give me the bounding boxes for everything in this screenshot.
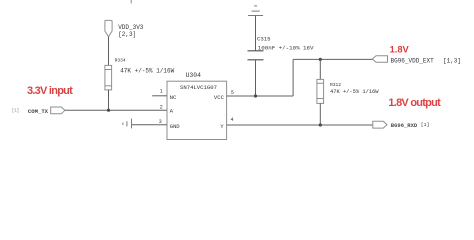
svg-text:C315: C315 [257, 35, 270, 42]
wire pin 5 VCC [227, 95, 294, 97]
wire VCC riser [292, 59, 294, 96]
svg-text:VCC: VCC [214, 94, 225, 101]
op-amp buffer U304 box [167, 81, 227, 139]
svg-text:3: 3 [159, 119, 162, 125]
wire R312 bottom lead [319, 103, 321, 125]
svg-text:COM_TX: COM_TX [28, 108, 49, 115]
wire C315 to VCC net [255, 60, 257, 96]
svg-text:GND: GND [170, 123, 181, 130]
svg-text:U304: U304 [186, 72, 202, 79]
wire R334 bottom lead [108, 90, 110, 110]
wire pin 3 to ground [132, 124, 168, 126]
svg-text:NC: NC [170, 94, 177, 101]
wire stub cut off at top edge [130, 0, 132, 3]
junction C315 / VCC wire [254, 94, 257, 97]
svg-text:R334: R334 [115, 58, 126, 64]
svg-text:2: 2 [160, 105, 163, 111]
svg-text:100nF +/-10% 16V: 100nF +/-10% 16V [258, 44, 314, 51]
svg-text:3.3V input: 3.3V input [27, 85, 73, 97]
svg-text:BG96_RXD: BG96_RXD [391, 122, 418, 129]
svg-text:R312: R312 [330, 82, 341, 88]
svg-text:BG96_VDD_EXT: BG96_VDD_EXT [391, 57, 435, 64]
svg-text:[1,3]: [1,3] [443, 58, 461, 65]
svg-text:SN74LVC1G07: SN74LVC1G07 [180, 84, 217, 91]
svg-text:[1]: [1] [421, 122, 430, 128]
wire COM_TX to pin 2 [65, 109, 167, 111]
wire VDD_3V3 to R334 [108, 37, 110, 66]
svg-text:4: 4 [231, 117, 234, 123]
ground (rotated, pin 3) [123, 119, 132, 129]
wire VCC rail to port [293, 58, 372, 60]
port connector BG96_RXD [373, 121, 387, 128]
capacitor C315 [248, 51, 264, 60]
svg-text:[1]: [1] [12, 108, 19, 114]
resistor R312 [317, 79, 324, 103]
junction COM_TX / R334 [107, 109, 110, 112]
port connector BG96_VDD_EXT [372, 56, 387, 62]
pin 1 stub (NC) [152, 95, 167, 97]
junction Y wire / R312 [319, 123, 322, 126]
power symbol VDD_3V3 [105, 20, 112, 36]
svg-text:[2,3]: [2,3] [118, 31, 136, 38]
svg-text:1.8V: 1.8V [390, 45, 410, 55]
wire pin 4 Y to port [227, 124, 373, 126]
junction rail / R312 [319, 58, 322, 61]
wire R312 top lead [319, 59, 321, 79]
svg-text:1: 1 [160, 89, 163, 95]
svg-text:VDD_3V3: VDD_3V3 [118, 24, 144, 31]
ground (above C315) [248, 6, 263, 16]
svg-text:5: 5 [231, 90, 234, 96]
svg-text:47K +/-5% 1/16W: 47K +/-5% 1/16W [330, 89, 379, 95]
svg-text:47K +/-5% 1/16W: 47K +/-5% 1/16W [120, 67, 174, 74]
port connector COM_TX [51, 107, 65, 114]
svg-text:1.8V output: 1.8V output [388, 97, 441, 109]
wire ground to C315 [255, 16, 257, 51]
resistor R334 [105, 65, 112, 90]
